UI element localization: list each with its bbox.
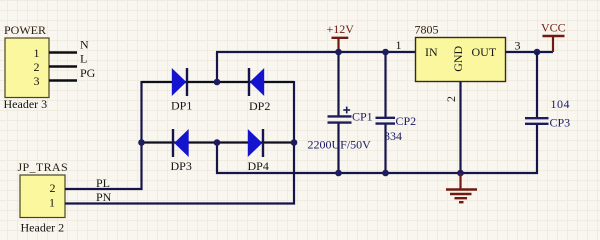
svg-text:VCC: VCC xyxy=(541,21,566,35)
svg-text:JP_TRAS: JP_TRAS xyxy=(18,160,68,174)
pin 2 stub wire (POWER) xyxy=(49,65,77,67)
connector POWER body (Header 3) xyxy=(5,38,49,98)
power symbol VCC xyxy=(543,36,565,52)
junction node ground rail / CP2 xyxy=(382,170,389,177)
svg-text:CP1: CP1 xyxy=(352,110,373,124)
junction node bridge bottom left xyxy=(138,139,145,146)
ground symbol xyxy=(446,173,477,202)
capacitor CP3 wire top xyxy=(536,52,538,117)
capacitor CP3 plates xyxy=(525,118,549,124)
capacitor CP3 wire bottom xyxy=(536,125,538,175)
wire 7805 OUT to VCC xyxy=(506,51,554,53)
wire drop from bridge bottom center to ground rail xyxy=(216,143,218,175)
junction node bridge bottom right xyxy=(291,139,298,146)
wire +12V rail to 7805 IN xyxy=(216,51,416,53)
svg-text:104: 104 xyxy=(551,97,571,111)
pin 3 stub wire (POWER) xyxy=(49,79,77,81)
svg-text:DP1: DP1 xyxy=(171,99,192,113)
capacitor CP1 plus sign xyxy=(343,107,350,114)
power symbol +12V xyxy=(332,38,349,52)
svg-text:+12V: +12V xyxy=(327,22,355,36)
svg-text:Header 3: Header 3 xyxy=(4,97,48,111)
svg-text:N: N xyxy=(80,37,89,51)
capacitor CP2 wire top xyxy=(384,52,386,118)
svg-text:7805: 7805 xyxy=(415,23,439,37)
pin 1 stub wire (POWER) xyxy=(49,51,77,53)
svg-text:CP2: CP2 xyxy=(396,114,417,128)
wire PN from JP_TRAS pin 1 to bridge right xyxy=(65,202,295,204)
svg-text:1: 1 xyxy=(49,196,55,210)
junction node bridge bottom center xyxy=(214,139,221,146)
svg-text:2200UF/50V: 2200UF/50V xyxy=(308,138,372,152)
svg-text:3: 3 xyxy=(34,74,40,88)
wire ground rail xyxy=(216,172,538,174)
svg-text:1: 1 xyxy=(34,46,40,60)
capacitor CP1 wire bottom xyxy=(337,122,339,173)
svg-text:L: L xyxy=(80,52,87,66)
svg-text:1: 1 xyxy=(396,38,402,52)
svg-text:PN: PN xyxy=(96,190,112,204)
svg-text:3: 3 xyxy=(515,39,521,53)
diode DP1 xyxy=(172,68,187,96)
wire bridge left vertical xyxy=(140,81,142,190)
wire bridge right vertical xyxy=(293,81,295,205)
junction node ground rail / GND pin xyxy=(457,170,464,177)
capacitor CP1 wire top xyxy=(337,52,339,117)
junction node OUT rail / CP3 xyxy=(534,49,541,56)
svg-text:2: 2 xyxy=(444,96,458,102)
svg-text:2: 2 xyxy=(34,60,40,74)
wire top diode row xyxy=(142,81,295,83)
capacitor CP2 wire bottom xyxy=(384,124,386,174)
wire PL from JP_TRAS pin 2 to bridge left xyxy=(65,188,143,190)
diode DP4 xyxy=(248,129,263,157)
svg-text:DP4: DP4 xyxy=(248,159,269,173)
capacitor CP1 plates xyxy=(328,116,352,122)
wire bottom diode row xyxy=(142,141,295,143)
diode DP3 xyxy=(173,129,189,157)
svg-text:PG: PG xyxy=(80,66,96,80)
junction node +12V rail / CP2 xyxy=(382,49,389,56)
junction node +12V rail / CP1 xyxy=(335,49,342,56)
connector JP_TRAS body (Header 2) xyxy=(20,175,65,218)
capacitor CP2 plates xyxy=(376,118,396,124)
svg-text:GND: GND xyxy=(451,45,465,71)
svg-text:POWER: POWER xyxy=(4,23,46,37)
regulator U1 body xyxy=(416,38,506,82)
svg-text:IN: IN xyxy=(425,45,438,59)
wire riser from bridge top center to +12V rail xyxy=(216,52,218,82)
wire 7805 GND pin down to ground rail xyxy=(459,82,461,174)
svg-text:DP3: DP3 xyxy=(171,159,192,173)
svg-text:2: 2 xyxy=(50,181,56,195)
diode DP2 xyxy=(249,68,264,96)
junction node bridge top center xyxy=(214,79,221,86)
svg-text:CP3: CP3 xyxy=(550,116,571,130)
svg-text:OUT: OUT xyxy=(472,45,497,59)
svg-text:DP2: DP2 xyxy=(249,99,270,113)
svg-text:Header 2: Header 2 xyxy=(21,221,65,235)
svg-text:334: 334 xyxy=(384,129,402,143)
junction node ground rail / CP1 xyxy=(335,170,342,177)
